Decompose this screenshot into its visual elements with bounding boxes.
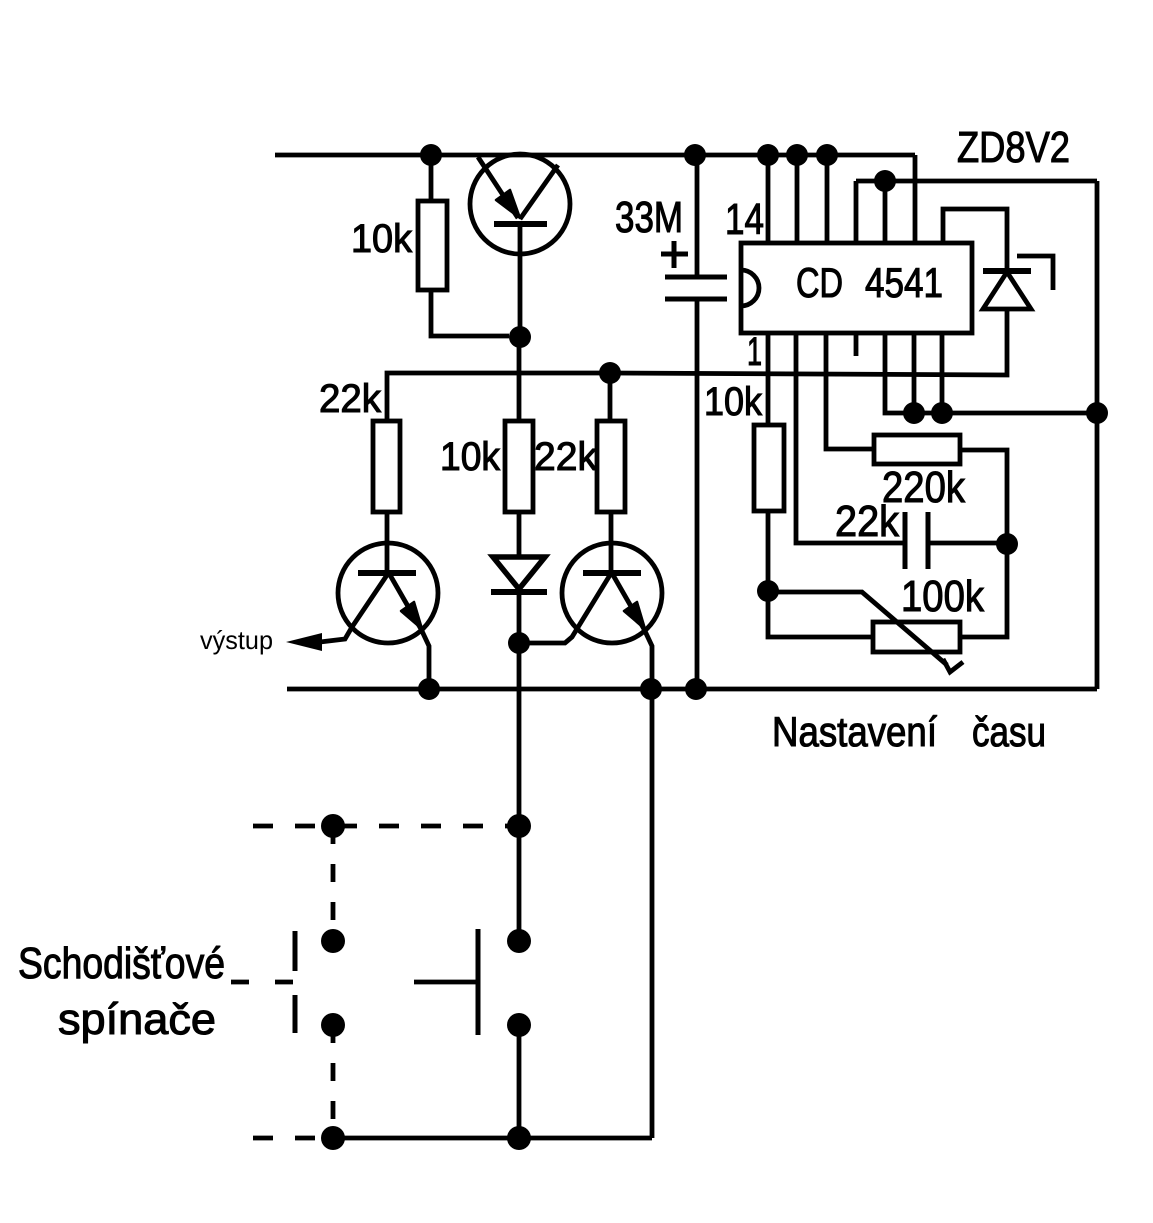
- node cap C1 on rail: [685, 678, 707, 700]
- node switch top right: [507, 814, 531, 838]
- svg-text:CD: CD: [796, 259, 843, 306]
- wire return riser: [650, 689, 655, 1138]
- IC pin stub: [854, 333, 859, 356]
- wire pin14-area drop to IC top at x=915: [913, 155, 918, 243]
- Q1 collector diagonal: [520, 165, 558, 219]
- dashed wire bottom row left: [253, 1136, 333, 1141]
- resistor R2 22k (left): [373, 421, 400, 512]
- node switch contact right upper: [507, 929, 531, 953]
- Q3 collector lead to D1 node: [519, 575, 610, 643]
- dashed wire left column lower: [331, 1025, 336, 1138]
- node Q1 base junction: [509, 326, 531, 348]
- capacitor C1 33M electrolytic: [665, 155, 727, 689]
- svg-text:220k: 220k: [882, 463, 966, 512]
- wire P1 right to node: [960, 545, 1007, 637]
- resistor R1 10k (top left): [418, 201, 447, 290]
- Q2 emitter diagonal with arrow: [390, 575, 421, 629]
- svg-text:času: času: [972, 708, 1046, 755]
- svg-text:100k: 100k: [901, 572, 985, 621]
- wire right vertical rail: [1095, 181, 1100, 689]
- node Q3 emitter on rail: [640, 678, 662, 700]
- wire IC pin to C2 left: [796, 333, 905, 543]
- wire D1 node down to switch column: [517, 643, 522, 941]
- transistor Q3 (right NPN): [519, 543, 662, 689]
- wire rail to resistor R1: [429, 155, 434, 201]
- Q3 base bar: [583, 570, 641, 576]
- diode D1: [491, 557, 547, 643]
- node pin E on wire: [874, 170, 896, 192]
- svg-text:22k: 22k: [319, 377, 382, 421]
- node rail pin C: [816, 144, 838, 166]
- switch S2 bar: [476, 929, 481, 1035]
- resistor R5 10k (right): [754, 425, 784, 511]
- svg-text:ZD8V2: ZD8V2: [957, 123, 1070, 172]
- svg-text:spínače: spínače: [58, 995, 216, 1044]
- resistor R6 220k: [874, 435, 960, 464]
- resistor R3 10k (middle): [505, 421, 533, 512]
- wire pin D up and over to right rail: [854, 181, 859, 243]
- wire switch right lower to bottom: [517, 1025, 522, 1138]
- svg-text:Nastavení: Nastavení: [772, 708, 937, 755]
- node switch bottom right: [507, 1126, 531, 1150]
- node pin F: [903, 402, 925, 424]
- wire zener cathode to IC pin: [943, 209, 1007, 271]
- wire IC pin to R6 220k: [826, 333, 874, 449]
- wire bus to R4 22k right: [608, 373, 613, 421]
- node switch contact left lower: [321, 1013, 345, 1037]
- wire pin E: [883, 181, 888, 243]
- capacitor C2 22k: [905, 512, 1007, 569]
- output arrow vystup: [286, 633, 322, 651]
- wire bottom row to return: [333, 1136, 652, 1141]
- node switch contact left upper: [321, 929, 345, 953]
- Q3 emitter to ground rail: [644, 629, 652, 689]
- node wiper junction: [757, 580, 779, 602]
- svg-text:1: 1: [747, 330, 762, 374]
- wire R3 to diode D1: [517, 512, 522, 557]
- node switch bottom left: [321, 1126, 345, 1150]
- transistor Q1 (top PNP): [470, 154, 570, 337]
- node Q2 emitter on rail: [418, 678, 440, 700]
- wire node to R3 10k middle: [517, 337, 522, 421]
- dashed wire left column upper: [331, 826, 336, 941]
- wire R2 to Q2 base: [385, 512, 390, 573]
- node rail pin A: [757, 144, 779, 166]
- wire R1 bottom to base node: [431, 290, 509, 336]
- Q2 emitter to ground rail: [421, 629, 429, 689]
- resistor R4 22k (right): [597, 421, 625, 512]
- wire top supply rail: [275, 153, 915, 158]
- wire pin1 to R5: [766, 333, 771, 425]
- wire R4 to Q3 base: [609, 512, 614, 573]
- switch S1 left bar segments: [293, 931, 298, 1033]
- Q1 emitter diagonal with arrow: [478, 157, 518, 218]
- Q2 collector lead to output: [320, 575, 387, 642]
- wire pin A: [766, 155, 771, 243]
- svg-text:33M: 33M: [615, 193, 683, 242]
- svg-text:14: 14: [725, 195, 764, 244]
- node rail pin B: [786, 144, 808, 166]
- P1 wiper arrow: [768, 592, 947, 665]
- dashed actuator leader: [231, 980, 294, 985]
- svg-text:22k: 22k: [534, 435, 598, 479]
- svg-text:4541: 4541: [865, 259, 943, 306]
- node rail to R1: [420, 144, 442, 166]
- wire bias bus y=374 to zener anode: [387, 309, 1007, 421]
- svg-text:10k: 10k: [440, 435, 501, 479]
- wire pin B: [795, 155, 800, 243]
- IC U1 CD4541: [741, 243, 972, 333]
- Q2 base bar: [358, 570, 416, 576]
- wire wiper node to P1 left: [768, 591, 873, 637]
- plus sign of C1: [661, 241, 688, 268]
- node switch contact right lower: [507, 1013, 531, 1037]
- wire R5 to wiper node: [766, 511, 771, 591]
- node switch top left: [321, 814, 345, 838]
- wire pin C: [825, 155, 830, 243]
- svg-text:výstup: výstup: [200, 625, 273, 655]
- wire pin G: [940, 333, 945, 413]
- dashed wire switch top row: [253, 824, 519, 829]
- Q1 base lead down: [518, 224, 523, 337]
- svg-text:Schodišťové: Schodišťové: [18, 939, 225, 988]
- Q3 emitter diagonal with arrow: [613, 575, 644, 629]
- potentiometer P1 100k: [873, 622, 960, 652]
- Q1 base bar: [494, 221, 547, 227]
- wire IC osc pins to right rail: [885, 333, 1097, 413]
- transistor Q2 (left NPN): [320, 543, 438, 689]
- ground rail bottom: [287, 687, 1097, 692]
- svg-text:10k: 10k: [351, 217, 413, 261]
- node pin G: [931, 402, 953, 424]
- wire R6 right to node: [960, 450, 1007, 543]
- node C2 right junction: [996, 533, 1018, 555]
- wire pin F: [912, 333, 917, 413]
- node D1 cathode junction: [508, 632, 530, 654]
- node bias bus to R4: [599, 362, 621, 384]
- node rail to C1: [684, 144, 706, 166]
- node right rail osc: [1086, 402, 1108, 424]
- svg-text:10k: 10k: [704, 380, 763, 424]
- switch S2 actuator: [414, 980, 478, 985]
- zener diode ZD1: [983, 256, 1053, 309]
